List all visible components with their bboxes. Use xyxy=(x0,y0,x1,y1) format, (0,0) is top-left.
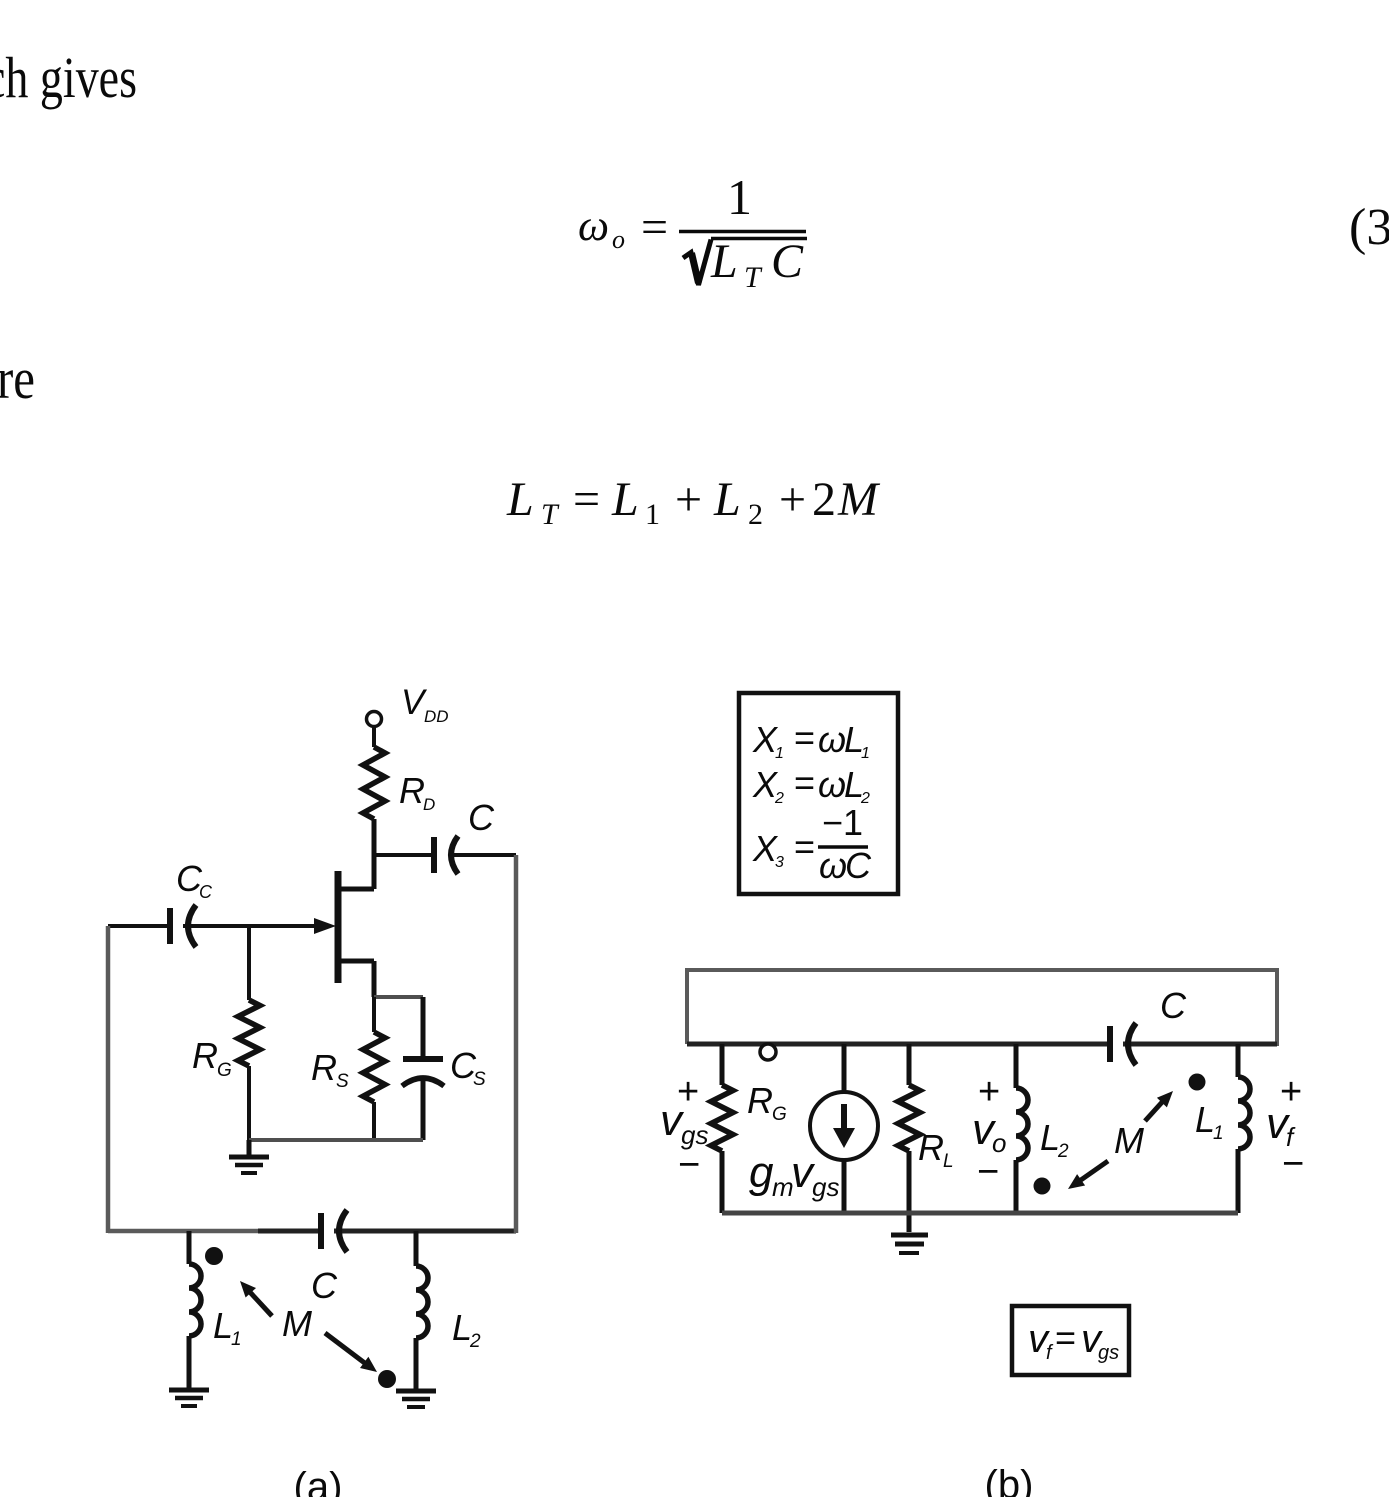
svg-text:=: = xyxy=(573,473,600,526)
svg-text:−: − xyxy=(977,1151,999,1193)
svg-text:(b): (b) xyxy=(985,1463,1034,1497)
svg-text:−: − xyxy=(1282,1143,1304,1185)
svg-text:C: C xyxy=(199,882,213,902)
svg-text:C: C xyxy=(771,235,804,288)
svg-text:M: M xyxy=(837,473,881,526)
svg-text:ω: ω xyxy=(818,764,846,805)
svg-text:L: L xyxy=(713,473,741,526)
svg-text:1: 1 xyxy=(645,498,660,531)
svg-text:M: M xyxy=(282,1303,312,1344)
svg-text:+: + xyxy=(779,473,806,526)
svg-text:=: = xyxy=(794,717,815,758)
svg-text:+: + xyxy=(675,473,702,526)
svg-text:R: R xyxy=(918,1127,944,1168)
svg-text:gs: gs xyxy=(812,1172,839,1202)
svg-text:R: R xyxy=(192,1035,218,1076)
svg-text:(a): (a) xyxy=(294,1465,343,1497)
svg-text:1: 1 xyxy=(231,1329,242,1350)
svg-text:=: = xyxy=(1055,1317,1076,1358)
svg-text:S: S xyxy=(473,1069,486,1090)
svg-text:T: T xyxy=(744,261,763,294)
svg-text:DD: DD xyxy=(424,707,449,726)
svg-text:R: R xyxy=(311,1047,337,1088)
svg-text:R: R xyxy=(399,770,425,811)
svg-text:D: D xyxy=(423,795,435,814)
svg-text:L: L xyxy=(710,235,738,288)
svg-text:=: = xyxy=(641,201,668,254)
svg-text:=: = xyxy=(794,826,815,867)
svg-text:C: C xyxy=(1160,985,1187,1026)
svg-text:ω: ω xyxy=(818,719,846,760)
svg-text:g: g xyxy=(749,1148,774,1197)
svg-text:C: C xyxy=(311,1265,338,1306)
svg-text:1: 1 xyxy=(727,169,752,225)
svg-text:1: 1 xyxy=(1213,1123,1224,1144)
svg-text:−: − xyxy=(678,1144,700,1186)
svg-text:3: 3 xyxy=(775,854,784,871)
svg-text:2: 2 xyxy=(774,790,784,807)
svg-text:2: 2 xyxy=(748,498,763,531)
svg-text:S: S xyxy=(336,1071,349,1092)
svg-text:C: C xyxy=(845,845,872,886)
svg-text:ch gives: ch gives xyxy=(0,45,137,110)
svg-text:2: 2 xyxy=(812,473,836,526)
svg-text:(3: (3 xyxy=(1349,199,1389,256)
svg-text:L: L xyxy=(943,1151,954,1172)
svg-text:−1: −1 xyxy=(822,802,863,843)
svg-text:M: M xyxy=(1114,1120,1144,1161)
svg-text:re: re xyxy=(0,346,35,411)
svg-text:1: 1 xyxy=(775,745,784,762)
svg-text:C: C xyxy=(468,797,495,838)
svg-text:G: G xyxy=(217,1060,232,1081)
svg-text:2: 2 xyxy=(1057,1141,1069,1162)
svg-text:R: R xyxy=(747,1080,773,1121)
svg-text:=: = xyxy=(794,762,815,803)
svg-text:L: L xyxy=(506,473,534,526)
svg-text:T: T xyxy=(541,498,560,531)
svg-text:2: 2 xyxy=(469,1331,481,1352)
svg-text:ω: ω xyxy=(578,201,609,250)
svg-text:gs: gs xyxy=(1098,1342,1119,1364)
svg-text:ω: ω xyxy=(819,845,847,886)
svg-text:1: 1 xyxy=(861,745,870,762)
svg-text:L: L xyxy=(611,473,639,526)
svg-text:o: o xyxy=(612,225,625,254)
svg-text:G: G xyxy=(772,1104,787,1125)
